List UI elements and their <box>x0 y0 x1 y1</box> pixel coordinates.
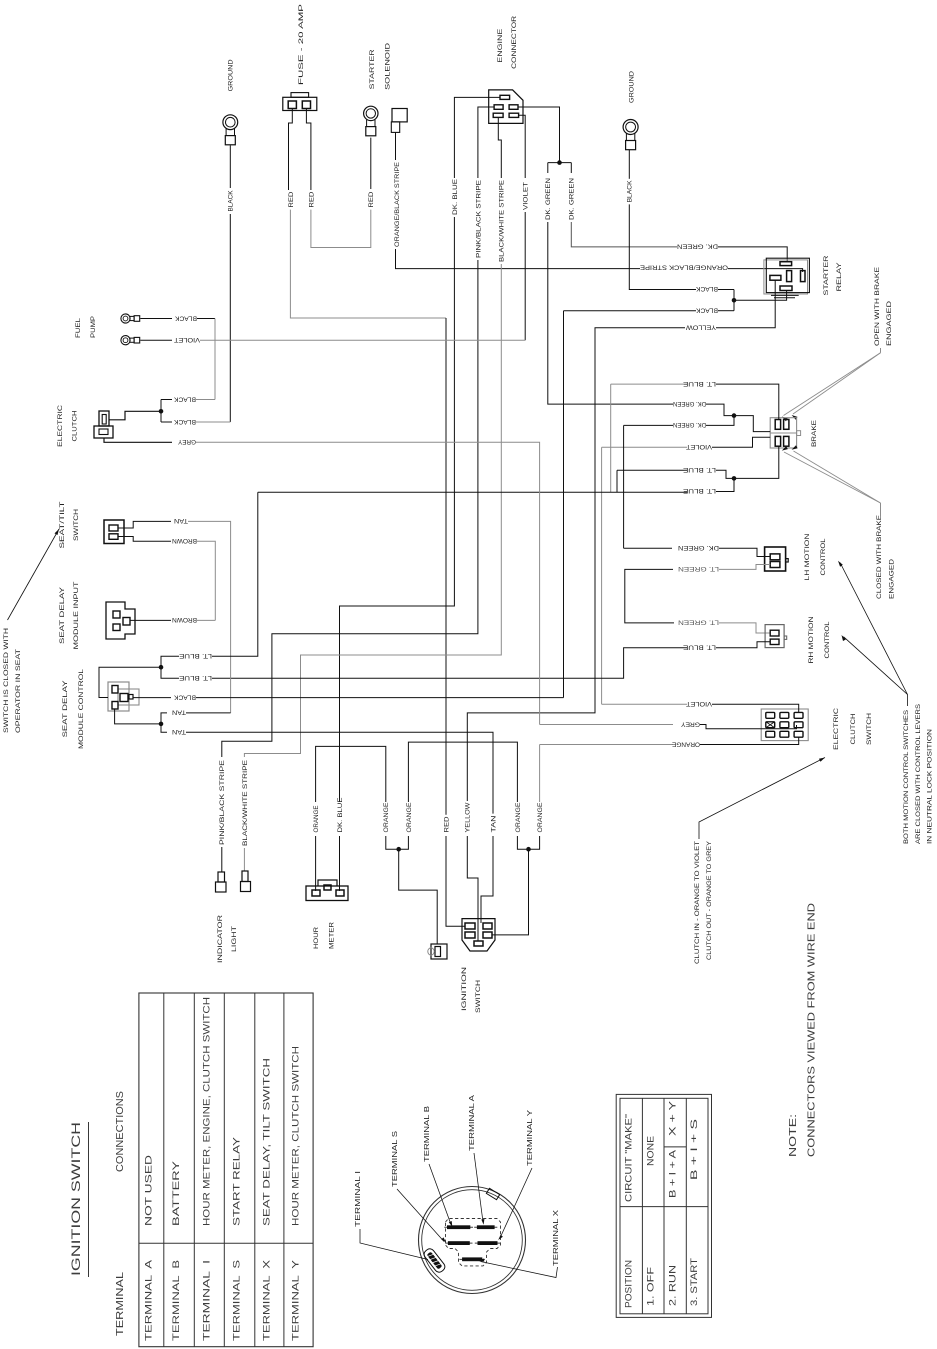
wire orange to clutch switch riser <box>537 745 544 833</box>
leader arrows to brake switch 1 <box>782 353 881 421</box>
ignition key lamp <box>428 944 447 959</box>
svg-text:DK. GREEN: DK. GREEN <box>545 178 552 220</box>
svg-text:HOUR: HOUR <box>313 927 320 949</box>
electric clutch connector <box>57 405 113 447</box>
svg-text:CLOSED WITH BRAKE: CLOSED WITH BRAKE <box>876 514 883 599</box>
svg-text:HOUR METER, CLUTCH SWITCH: HOUR METER, CLUTCH SWITCH <box>291 1046 301 1226</box>
svg-text:TAN: TAN <box>172 709 186 716</box>
wire dk. blue engine to hour meter <box>337 97 500 891</box>
svg-text:DK. BLUE: DK. BLUE <box>452 178 459 215</box>
svg-text:BLACK: BLACK <box>174 418 196 425</box>
svg-text:ENGAGED: ENGAGED <box>886 301 893 346</box>
svg-text:SEAT DELAY: SEAT DELAY <box>59 586 66 644</box>
terminal B bar <box>444 1226 473 1229</box>
svg-text:NONE: NONE <box>646 1136 656 1166</box>
wire black from left ground <box>228 145 235 422</box>
svg-text:RED: RED <box>308 192 315 208</box>
wire black right ground to starter relay <box>627 150 734 293</box>
wire grey to clutch switch <box>540 720 797 729</box>
svg-text:B + I + A: B + I + A <box>668 1149 678 1198</box>
svg-text:TERMINAL: TERMINAL <box>115 1271 126 1336</box>
svg-text:SEAT DELAY: SEAT DELAY <box>62 680 69 738</box>
wire orange/black stripe to starter relay <box>394 132 802 272</box>
svg-text:DK. GREEN: DK. GREEN <box>678 544 719 551</box>
svg-text:CONNECTIONS: CONNECTIONS <box>115 1091 126 1172</box>
svg-text:CONNECTOR: CONNECTOR <box>511 16 518 69</box>
svg-text:STARTER: STARTER <box>369 49 376 89</box>
svg-text:B + I + S: B + I + S <box>689 1119 699 1180</box>
wire black clutch junction <box>109 395 215 422</box>
svg-text:BLACK/WHITE STRIPE: BLACK/WHITE STRIPE <box>242 759 249 846</box>
ground symbol (left) ring terminal <box>223 59 238 144</box>
svg-text:3. START: 3. START <box>689 1258 699 1306</box>
terminal Y bar <box>475 1242 500 1245</box>
svg-text:GROUND: GROUND <box>228 59 235 91</box>
svg-text:TERMINAL Y: TERMINAL Y <box>291 1260 301 1341</box>
leader arrows to motion controls <box>838 561 908 706</box>
svg-text:TERMINAL I: TERMINAL I <box>201 1260 211 1341</box>
svg-text:ELECTRIC: ELECTRIC <box>57 405 64 447</box>
label terminal I <box>355 1171 428 1260</box>
svg-text:DK. GREEN: DK. GREEN <box>677 243 718 250</box>
note open with brake engaged <box>874 266 893 352</box>
wire dk. green brake sw1 b <box>624 413 771 431</box>
svg-text:METER: METER <box>329 922 336 949</box>
svg-text:CIRCUIT "MAKE": CIRCUIT "MAKE" <box>624 1114 634 1202</box>
note switch closed with operator in seat <box>3 628 22 733</box>
leader arrow operator in seat <box>8 529 60 620</box>
wire black seat delay control <box>133 311 696 701</box>
terminal X bar <box>459 1258 485 1261</box>
svg-text:CLUTCH: CLUTCH <box>72 410 79 441</box>
wire black clutch to ground <box>161 418 230 425</box>
svg-text:SWITCH IS CLOSED WITH: SWITCH IS CLOSED WITH <box>3 628 10 733</box>
table texts position column <box>624 1258 700 1308</box>
svg-text:OPERATOR IN SEAT: OPERATOR IN SEAT <box>15 649 22 733</box>
svg-text:ORANGE: ORANGE <box>537 802 544 832</box>
svg-text:LT. BLUE: LT. BLUE <box>178 652 212 659</box>
svg-text:SEAT DELAY, TILT SWITCH: SEAT DELAY, TILT SWITCH <box>261 1058 271 1226</box>
fuel pump terminals <box>75 314 140 345</box>
svg-text:INDICATOR: INDICATOR <box>217 915 224 963</box>
svg-text:TERMINAL B: TERMINAL B <box>424 1106 431 1162</box>
svg-text:X + Y: X + Y <box>668 1101 678 1136</box>
svg-text:ENGAGED: ENGAGED <box>889 559 896 599</box>
wire dk. green brake to LH motion control <box>624 425 771 556</box>
svg-text:BLACK: BLACK <box>696 285 718 292</box>
ground symbol (right) ring terminal <box>623 71 638 150</box>
svg-text:BLACK/WHITE STRIPE: BLACK/WHITE STRIPE <box>499 179 506 262</box>
engine connector J1 <box>489 16 523 124</box>
node dk.green junction at engine <box>518 107 571 173</box>
svg-text:VIOLET: VIOLET <box>686 443 712 450</box>
label terminal B <box>424 1106 452 1227</box>
wire violet brake sw2 <box>602 437 771 704</box>
key slot <box>422 1247 446 1274</box>
svg-text:PINK/BLACK STRIPE: PINK/BLACK STRIPE <box>219 759 226 845</box>
svg-text:BOTH MOTION CONTROL SWITCHES: BOTH MOTION CONTROL SWITCHES <box>903 710 910 844</box>
table title ignition switch <box>69 1122 89 1277</box>
RH motion control connector <box>765 616 831 663</box>
svg-text:SWITCH: SWITCH <box>73 509 80 541</box>
node orange junction left <box>386 836 437 944</box>
svg-text:GREY: GREY <box>178 438 196 445</box>
ignition switch table grid <box>139 993 313 1347</box>
svg-text:IGNITION: IGNITION <box>461 967 468 1011</box>
wire red fuse left lead <box>288 109 446 815</box>
wire pink/black stripe engine to indicator <box>219 107 494 872</box>
svg-text:LT. GREEN: LT. GREEN <box>678 619 719 626</box>
svg-text:ORANGE: ORANGE <box>672 740 700 747</box>
wire tan to ignition switch <box>172 728 497 923</box>
svg-text:TERMINAL A: TERMINAL A <box>469 1095 476 1151</box>
wire violet fuel pump to engine <box>140 336 525 343</box>
wire black fuel pump <box>140 314 215 399</box>
electric clutch switch connector <box>761 708 873 750</box>
label terminal A <box>469 1095 484 1225</box>
wire brown seat/tilt to seat delay input <box>118 537 215 621</box>
svg-text:BROWN: BROWN <box>172 616 197 623</box>
svg-text:IN NEUTRAL LOCK POSITION: IN NEUTRAL LOCK POSITION <box>927 729 934 844</box>
svg-text:POSITION: POSITION <box>624 1260 634 1308</box>
note clutch in/out <box>694 840 713 964</box>
svg-text:LIGHT: LIGHT <box>231 926 238 952</box>
seat delay module input connector <box>59 582 135 650</box>
LH motion control connector <box>765 533 827 580</box>
svg-text:ORANGE/BLACK STRIPE: ORANGE/BLACK STRIPE <box>394 162 401 247</box>
svg-text:YELLOW: YELLOW <box>465 802 472 833</box>
wire lt. green LH to RH motion control <box>625 565 770 634</box>
svg-text:LH MOTION: LH MOTION <box>804 533 811 580</box>
seat/tilt switch connector <box>59 502 124 549</box>
svg-text:TERMINAL X: TERMINAL X <box>261 1260 271 1341</box>
svg-text:BLACK: BLACK <box>174 693 196 700</box>
svg-text:TAN: TAN <box>172 728 186 735</box>
table header connections <box>115 1091 126 1172</box>
note closed with brake engaged <box>876 503 896 599</box>
terminal A bar <box>474 1226 497 1229</box>
svg-text:BLACK: BLACK <box>228 190 235 211</box>
svg-text:DK. BLUE: DK. BLUE <box>337 797 344 833</box>
svg-text:GROUND: GROUND <box>628 71 635 103</box>
hour meter <box>306 880 348 949</box>
table texts circuit make column <box>624 1101 700 1202</box>
svg-text:BATTERY: BATTERY <box>171 1161 181 1226</box>
svg-text:ORANGE: ORANGE <box>515 802 522 832</box>
seat delay module control connector <box>62 669 139 749</box>
svg-text:START RELAY: START RELAY <box>232 1137 242 1226</box>
note both motion control switches <box>903 704 934 844</box>
svg-text:CONNECTORS VIEWED FROM WIRE EN: CONNECTORS VIEWED FROM WIRE END <box>807 903 818 1157</box>
starter solenoid ring terminal <box>364 43 392 136</box>
wire red fuse right lead <box>306 109 370 248</box>
svg-text:CLUTCH OUT - ORANGE TO GREY: CLUTCH OUT - ORANGE TO GREY <box>706 840 713 960</box>
svg-text:BLACK: BLACK <box>627 180 634 202</box>
svg-text:ELECTRIC: ELECTRIC <box>833 708 840 750</box>
svg-text:TERMINAL I: TERMINAL I <box>355 1171 362 1227</box>
svg-text:CONTROL: CONTROL <box>820 538 827 575</box>
svg-text:DK. GREEN: DK. GREEN <box>673 400 706 407</box>
svg-text:DK. GREEN: DK. GREEN <box>569 178 576 220</box>
wire lt. blue brake sw1 <box>611 380 779 492</box>
wire lt. blue brake sw2 second <box>617 466 734 492</box>
svg-text:2. RUN: 2. RUN <box>668 1265 678 1306</box>
svg-text:TERMINAL Y: TERMINAL Y <box>527 1110 534 1166</box>
wire brown to module input <box>130 616 215 623</box>
wire red to ignition <box>443 816 465 926</box>
svg-text:LT. GREEN: LT. GREEN <box>678 565 719 572</box>
svg-text:GREY: GREY <box>681 720 700 727</box>
label terminal Y <box>498 1110 534 1240</box>
table rows terminals <box>143 997 300 1341</box>
fuse F1 - 20 AMP <box>283 3 317 110</box>
wire lt. blue rail seat delay to brake sw2 <box>258 446 779 494</box>
svg-text:DK. GREEN: DK. GREEN <box>673 421 706 428</box>
starter relay K1 <box>764 255 843 297</box>
svg-text:TAN: TAN <box>174 517 188 524</box>
svg-text:TERMINAL A: TERMINAL A <box>143 1259 153 1341</box>
wire black/white stripe engine to indicator <box>242 117 506 871</box>
wire orange hour meter <box>313 746 390 891</box>
svg-text:1. OFF: 1. OFF <box>646 1266 656 1306</box>
svg-text:RH MOTION: RH MOTION <box>808 616 815 663</box>
svg-text:IGNITION SWITCH: IGNITION SWITCH <box>69 1122 83 1276</box>
svg-text:ORANGE: ORANGE <box>313 805 320 832</box>
wire violet engine connector <box>519 115 530 340</box>
svg-text:VIOLET: VIOLET <box>686 700 712 707</box>
wire red starter solenoid <box>368 138 375 208</box>
svg-text:TAN: TAN <box>490 815 497 832</box>
svg-text:ARE CLOSED WITH CONTROL LEVERS: ARE CLOSED WITH CONTROL LEVERS <box>915 704 922 844</box>
svg-text:SWITCH: SWITCH <box>475 980 482 1013</box>
node orange junction right <box>492 836 540 935</box>
svg-text:LT. BLUE: LT. BLUE <box>682 380 716 387</box>
svg-text:TERMINAL S: TERMINAL S <box>392 1131 399 1187</box>
svg-text:VIOLET: VIOLET <box>174 336 200 343</box>
svg-text:OPEN WITH BRAKE: OPEN WITH BRAKE <box>874 266 881 346</box>
wire lt. blue seat delay to RH motion <box>212 642 770 678</box>
svg-text:ORANGE/BLACK STRIPE: ORANGE/BLACK STRIPE <box>639 264 728 271</box>
svg-text:VIOLET: VIOLET <box>523 182 530 210</box>
svg-text:NOTE:: NOTE: <box>788 1114 799 1157</box>
svg-text:BLACK: BLACK <box>696 306 718 313</box>
wire dk. green engine to brake <box>545 178 673 404</box>
svg-text:PUMP: PUMP <box>90 315 97 338</box>
ignition terminal area dashed outline <box>446 1219 501 1266</box>
svg-text:PINK/BLACK STRIPE: PINK/BLACK STRIPE <box>475 179 482 258</box>
svg-text:CLUTCH IN - ORANGE TO VIOLET: CLUTCH IN - ORANGE TO VIOLET <box>694 841 701 964</box>
svg-text:BRAKE: BRAKE <box>811 419 818 447</box>
label terminal S <box>392 1131 446 1243</box>
position / circuit make table grid <box>616 1094 711 1317</box>
svg-text:LT. BLUE: LT. BLUE <box>682 466 716 473</box>
svg-text:FUEL: FUEL <box>75 318 82 338</box>
ignition switch body circles <box>419 1187 526 1294</box>
wire yellow starter relay to ignition switch <box>465 280 776 941</box>
svg-text:SOLENOID: SOLENOID <box>385 43 392 90</box>
wire dk. green brake sw1 a <box>673 400 734 416</box>
svg-text:STARTER: STARTER <box>823 255 830 295</box>
ignition switch connector <box>461 919 495 1013</box>
svg-text:SWITCH: SWITCH <box>866 713 873 745</box>
svg-text:CONTROL: CONTROL <box>824 621 831 658</box>
wire orange to clutch switch <box>540 737 799 747</box>
svg-text:FUSE - 20 AMP: FUSE - 20 AMP <box>298 3 305 85</box>
svg-text:ENGINE: ENGINE <box>497 28 504 63</box>
svg-text:CLUTCH: CLUTCH <box>850 713 857 744</box>
svg-text:BLACK: BLACK <box>174 395 196 402</box>
wire dk. green engine to starter relay <box>569 163 788 262</box>
svg-text:MODULE CONTROL: MODULE CONTROL <box>78 669 85 749</box>
svg-text:RED: RED <box>288 192 295 208</box>
svg-text:YELLOW: YELLOW <box>685 324 716 331</box>
svg-text:LT. BLUE: LT. BLUE <box>178 674 212 681</box>
wire lt. blue seat delay second label <box>178 674 212 681</box>
note connectors viewed from wire end <box>788 903 818 1157</box>
wire violet to clutch switch <box>602 700 799 712</box>
wire lt. blue pair seat delay control <box>99 492 258 697</box>
svg-text:MODULE INPUT: MODULE INPUT <box>73 582 80 650</box>
svg-text:NOT USED: NOT USED <box>143 1154 153 1226</box>
svg-text:RED: RED <box>443 816 450 832</box>
brake switch connector <box>770 418 818 448</box>
svg-text:SEAT/TILT: SEAT/TILT <box>59 502 66 549</box>
label terminal X <box>479 1210 560 1278</box>
leader arrows to brake switch 2 <box>782 445 881 503</box>
indicator light terminals <box>216 871 251 963</box>
svg-text:LT. BLUE: LT. BLUE <box>682 487 716 494</box>
starter solenoid spade terminal <box>391 109 407 133</box>
svg-text:RELAY: RELAY <box>836 262 843 292</box>
wire orange pair middle <box>406 742 522 832</box>
terminal S bar <box>445 1242 472 1245</box>
svg-text:TERMINAL S: TERMINAL S <box>232 1260 242 1341</box>
svg-text:HOUR METER, ENGINE, CLUTCH SWI: HOUR METER, ENGINE, CLUTCH SWITCH <box>201 997 211 1226</box>
svg-text:LT. BLUE: LT. BLUE <box>682 644 716 651</box>
wire black starter relay junction <box>696 290 787 314</box>
wire grey electric clutch <box>104 438 540 725</box>
svg-text:ORANGE: ORANGE <box>383 802 390 832</box>
wire tan seat/tilt <box>118 517 231 713</box>
svg-text:TERMINAL X: TERMINAL X <box>553 1210 560 1266</box>
svg-text:BROWN: BROWN <box>172 537 197 544</box>
leader arrow clutch note <box>699 758 825 840</box>
svg-text:ORANGE: ORANGE <box>406 802 413 832</box>
wire tan pair seat delay control <box>115 709 231 733</box>
svg-text:RED: RED <box>368 192 375 208</box>
table header terminal <box>115 1271 126 1336</box>
svg-text:TERMINAL B: TERMINAL B <box>171 1260 181 1341</box>
svg-text:BLACK: BLACK <box>175 314 197 321</box>
